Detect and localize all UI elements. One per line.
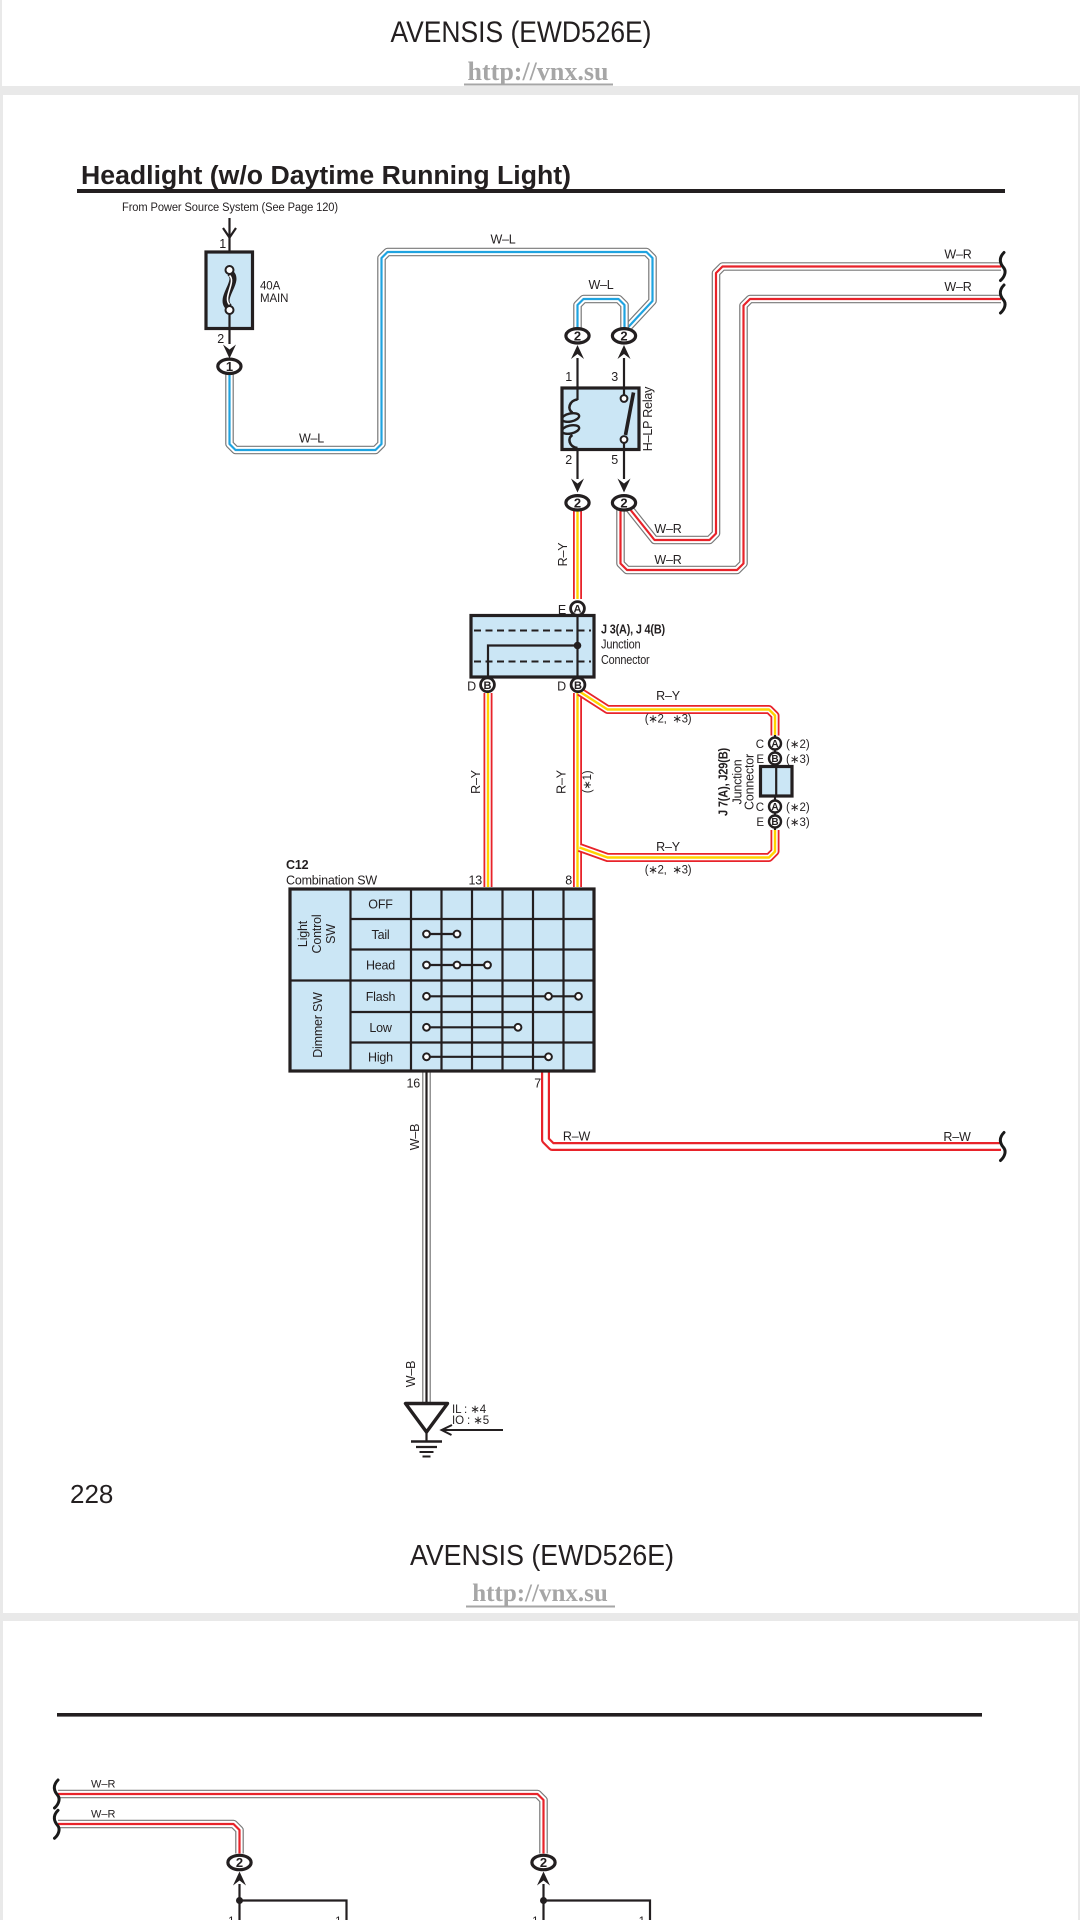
svg-text:Junction: Junction xyxy=(601,638,641,652)
svg-text:W–L: W–L xyxy=(299,432,324,446)
junction connector internal dashed bus lower xyxy=(474,661,591,663)
fuse FL MAIN box xyxy=(206,252,253,329)
svg-text:2: 2 xyxy=(217,332,224,346)
svg-text:High: High xyxy=(368,1050,393,1064)
svg-text:R–Y: R–Y xyxy=(656,689,681,703)
svg-text:H–LP Relay: H–LP Relay xyxy=(641,386,655,451)
connector arrow relay pin2 xyxy=(571,479,584,493)
connector arrow page2 right xyxy=(537,1872,550,1886)
connector oval 2 relay pin5 xyxy=(612,495,635,510)
junction connector internal wire vertical xyxy=(576,616,578,678)
wire break squiggle page2 lower xyxy=(54,1810,59,1838)
contact row High xyxy=(423,1053,552,1060)
svg-text:C: C xyxy=(756,739,764,751)
svg-text:B: B xyxy=(574,680,582,692)
connector oval 2 page2 right xyxy=(532,1855,555,1870)
svg-text:2: 2 xyxy=(574,495,581,510)
svg-text:AVENSIS (EWD526E): AVENSIS (EWD526E) xyxy=(391,16,652,49)
connector oval 2 page2 left xyxy=(228,1855,251,1870)
node E(B) upper xyxy=(769,753,781,766)
svg-text:Low: Low xyxy=(369,1021,393,1035)
svg-text:Dimmer SW: Dimmer SW xyxy=(311,992,325,1058)
contact row Head xyxy=(423,962,491,969)
svg-text:D: D xyxy=(557,680,566,694)
svg-text:http://vnx.su: http://vnx.su xyxy=(472,1580,608,1607)
svg-text:(∗2, ∗3): (∗2, ∗3) xyxy=(645,714,692,726)
node C(A) upper xyxy=(769,738,781,751)
svg-text:Connector: Connector xyxy=(743,754,757,810)
svg-text:W–R: W–R xyxy=(944,248,971,262)
svg-text:W–L: W–L xyxy=(490,233,515,247)
svg-text:W–R: W–R xyxy=(654,553,681,567)
svg-text:J 7(A), J29(B): J 7(A), J29(B) xyxy=(717,748,731,816)
svg-text:MAIN: MAIN xyxy=(260,293,288,305)
svg-text:(∗2): (∗2) xyxy=(786,739,810,751)
svg-text:7: 7 xyxy=(534,1077,541,1091)
wire R-Y pin2 band xyxy=(577,511,579,599)
combination switch C12 box xyxy=(290,889,594,1071)
switch section divider column2 xyxy=(410,889,412,1071)
contact row Tail xyxy=(423,931,460,938)
node D(B) left xyxy=(481,678,495,692)
wire R-Y to pin13 band xyxy=(487,693,489,887)
ground wire tail xyxy=(425,1432,427,1441)
svg-text:2: 2 xyxy=(620,328,627,343)
wire W-R page2 lower band xyxy=(58,1824,240,1854)
svg-text:From Power Source System (See: From Power Source System (See Page 120) xyxy=(122,202,338,214)
svg-text:R–Y: R–Y xyxy=(555,769,569,794)
svg-text:D: D xyxy=(467,680,476,694)
svg-text:1: 1 xyxy=(228,1916,234,1920)
wire relay pin2 lead xyxy=(576,450,578,480)
svg-text:(∗3): (∗3) xyxy=(786,817,810,829)
svg-text:Head: Head xyxy=(366,959,395,973)
svg-text:W–R: W–R xyxy=(654,522,681,536)
svg-text:C12: C12 xyxy=(286,858,309,872)
svg-text:A: A xyxy=(574,604,582,616)
svg-text:W–R: W–R xyxy=(944,280,971,294)
svg-text:http://vnx.su: http://vnx.su xyxy=(468,57,609,86)
svg-text:1: 1 xyxy=(226,359,233,374)
svg-text:Connector: Connector xyxy=(601,653,650,667)
svg-text:2: 2 xyxy=(236,1855,243,1870)
wire R-Y to pin8 band xyxy=(577,693,579,887)
wire break squiggle R-W xyxy=(1000,1133,1005,1161)
svg-text:R–Y: R–Y xyxy=(556,542,570,567)
connector oval 1 xyxy=(218,359,241,374)
svg-text:Control: Control xyxy=(310,915,324,954)
svg-text:(∗2, ∗3): (∗2, ∗3) xyxy=(645,865,692,877)
svg-text:R–Y: R–Y xyxy=(469,769,483,794)
wire break squiggle W-R upper xyxy=(1000,253,1005,281)
wire W-R upper band xyxy=(629,267,1001,541)
svg-text:W–R: W–R xyxy=(91,1779,116,1791)
connector oval 2 relay pin2 xyxy=(566,495,589,510)
node E(A) junction connector xyxy=(571,602,585,616)
node E(B) lower xyxy=(769,816,781,829)
svg-text:Headlight (w/o Daytime Running: Headlight (w/o Daytime Running Light) xyxy=(81,162,571,190)
svg-text:(∗1): (∗1) xyxy=(582,770,594,793)
wire relay pin3 lead xyxy=(623,358,625,388)
power source arrow xyxy=(223,218,236,266)
svg-text:Combination SW: Combination SW xyxy=(286,874,377,888)
svg-text:Tail: Tail xyxy=(372,928,390,942)
connector arrow page2 left xyxy=(233,1872,246,1886)
wire W-R lower band xyxy=(621,299,1002,570)
svg-text:B: B xyxy=(484,680,492,692)
svg-text:3: 3 xyxy=(611,370,618,384)
svg-text:Light: Light xyxy=(296,920,310,947)
svg-text:1: 1 xyxy=(219,237,226,251)
svg-text:B: B xyxy=(771,817,778,828)
relay box H-LP xyxy=(562,388,639,450)
header strip xyxy=(2,0,1080,86)
svg-text:2: 2 xyxy=(540,1855,547,1870)
svg-text:16: 16 xyxy=(406,1077,420,1091)
label Light Control SW rotated xyxy=(296,915,338,954)
svg-text:1: 1 xyxy=(639,1916,645,1920)
connector arrow fuse xyxy=(223,345,236,359)
J7 column lead wire xyxy=(774,735,776,830)
svg-text:2: 2 xyxy=(620,495,627,510)
wire R-W band xyxy=(546,1072,1002,1147)
junction node dot xyxy=(574,642,582,650)
ground pointer arrow xyxy=(442,1425,503,1435)
svg-text:5: 5 xyxy=(611,453,618,467)
connector arrow relay pin5 xyxy=(618,479,631,493)
wire headlight RH leads xyxy=(544,1884,651,1920)
contact row Low xyxy=(423,1024,521,1031)
svg-text:2: 2 xyxy=(565,453,572,467)
wire W-L (fuse to relay) band xyxy=(230,252,653,450)
switch grid row lines xyxy=(290,919,594,1043)
junction connector J3 J4 box xyxy=(471,616,594,678)
svg-text:13: 13 xyxy=(468,874,482,888)
switch grid column lines xyxy=(442,889,564,1071)
svg-text:2: 2 xyxy=(574,328,581,343)
svg-text:228: 228 xyxy=(70,1479,113,1509)
svg-text:J 3(A), J 4(B): J 3(A), J 4(B) xyxy=(601,623,665,637)
svg-text:R–Y: R–Y xyxy=(656,840,681,854)
wire R-Y branch upper band xyxy=(580,692,776,736)
fusible link symbol xyxy=(226,266,234,344)
page 1 xyxy=(3,95,1078,1613)
svg-text:8: 8 xyxy=(565,874,572,888)
svg-text:SW: SW xyxy=(324,924,338,944)
svg-text:C: C xyxy=(756,802,764,814)
title rule xyxy=(77,189,1005,193)
svg-text:E: E xyxy=(756,817,764,829)
connector arrow relay pin3 xyxy=(618,345,631,359)
svg-text:1: 1 xyxy=(532,1916,538,1920)
junction connector internal wire horizontal xyxy=(488,646,578,678)
svg-text:W–B: W–B xyxy=(404,1361,418,1388)
pin 1 labels page2 xyxy=(228,1916,645,1920)
svg-text:OFF: OFF xyxy=(368,898,393,912)
wire break squiggle page2 upper xyxy=(54,1780,59,1808)
wire relay pin5 lead xyxy=(623,450,625,480)
node C(A) lower xyxy=(769,801,781,814)
junction dot page2 left xyxy=(236,1897,243,1904)
wire R-Y branch lower band xyxy=(580,830,776,858)
svg-text:IO : ∗5: IO : ∗5 xyxy=(452,1415,489,1427)
svg-text:AVENSIS (EWD526E): AVENSIS (EWD526E) xyxy=(410,1540,674,1572)
junction dot page2 right xyxy=(540,1897,547,1904)
junction connector internal dashed bus upper xyxy=(474,630,591,632)
wire W-B band xyxy=(426,1072,428,1402)
switch section divider column1 xyxy=(349,889,351,1071)
connector arrow relay pin1 xyxy=(571,345,584,359)
svg-text:(∗2): (∗2) xyxy=(786,802,810,814)
wire W-L bridge band xyxy=(578,299,625,328)
svg-text:B: B xyxy=(771,754,778,765)
page 2 xyxy=(3,1621,1078,1920)
wire headlight LH leads xyxy=(240,1884,347,1920)
connector oval 2 relay pin3 xyxy=(612,328,635,343)
svg-text:40A: 40A xyxy=(260,281,281,293)
svg-text:A: A xyxy=(771,739,778,750)
ground hatch xyxy=(411,1442,442,1457)
svg-text:W–B: W–B xyxy=(408,1124,422,1151)
svg-text:R–W: R–W xyxy=(563,1130,591,1144)
wire W-R page2 upper band xyxy=(58,1794,544,1854)
wire relay pin1 lead xyxy=(576,358,578,388)
svg-text:W–R: W–R xyxy=(91,1809,116,1821)
contact row Flash xyxy=(423,993,582,1000)
svg-text:W–L: W–L xyxy=(588,278,613,292)
svg-text:(∗3): (∗3) xyxy=(786,754,810,766)
svg-text:A: A xyxy=(771,802,778,813)
svg-text:1: 1 xyxy=(335,1916,341,1920)
value label 40A MAIN xyxy=(260,281,288,306)
junction connector J7 J29 box xyxy=(761,767,793,797)
svg-text:R–W: R–W xyxy=(943,1130,971,1144)
node D(B) right xyxy=(571,678,585,692)
svg-text:1: 1 xyxy=(565,370,572,384)
wire break squiggle W-R lower xyxy=(1000,285,1005,313)
svg-text:Flash: Flash xyxy=(366,990,396,1004)
relay switch contact xyxy=(621,388,634,450)
page2 section rule xyxy=(57,1713,982,1717)
relay coil xyxy=(561,388,580,450)
svg-text:E: E xyxy=(756,754,764,766)
connector oval 2 relay pin1 xyxy=(566,328,589,343)
ground symbol triangle xyxy=(406,1404,448,1433)
